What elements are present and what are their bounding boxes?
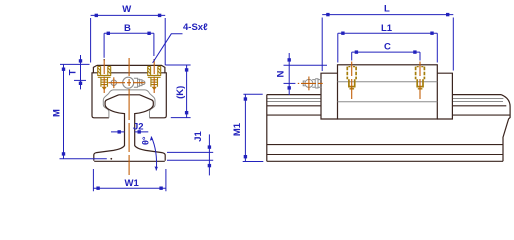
svg-text:T: T <box>68 69 79 75</box>
dimension B <box>104 32 154 58</box>
right screw S (hatched section) <box>147 66 161 90</box>
svg-text:J2: J2 <box>133 122 144 133</box>
svg-text:C: C <box>384 42 391 53</box>
rail side: top edge <box>267 94 501 96</box>
rail side: gray groove lines <box>267 98 504 100</box>
svg-text:L: L <box>384 4 390 15</box>
rail side: dark groove line <box>267 105 507 107</box>
dimension J2 <box>111 130 148 133</box>
left end cap <box>321 73 338 119</box>
dimension W <box>91 14 166 65</box>
dimension C <box>352 50 420 60</box>
dimension T <box>60 55 90 89</box>
grease nipple front (big circle) <box>123 77 134 88</box>
left screw S (hatched section) <box>97 66 111 90</box>
small hole circle <box>111 80 116 85</box>
grease nipple (side view, on left cap) <box>303 79 321 88</box>
centerline: right screw axis <box>153 60 155 94</box>
centerline: horizontal through nipple <box>108 82 144 84</box>
centerline: small hole vertical axis <box>113 77 115 88</box>
centerline: left screw axis <box>103 60 105 94</box>
svg-text:M1: M1 <box>232 122 243 136</box>
svg-text:θ°: θ° <box>141 136 151 145</box>
svg-text:4-Sxℓ: 4-Sxℓ <box>183 22 208 33</box>
dimension M1 <box>243 94 264 161</box>
block body (side view) <box>338 65 438 119</box>
svg-text:W: W <box>122 4 131 15</box>
left bolt centerline <box>351 62 353 100</box>
grease nipple side profile <box>134 78 142 87</box>
rail side: left end face <box>266 95 268 162</box>
nipple centerline horizontal <box>298 82 323 84</box>
dimension W1 <box>93 169 165 191</box>
nipple centerline vertical <box>308 77 310 91</box>
rail side: lower body lines <box>267 144 503 146</box>
rail side: shoulder line <box>267 114 510 116</box>
dimension J1 <box>167 134 213 175</box>
rail side: right end face with chamfers <box>501 95 510 162</box>
left mounting bolt (hidden) <box>347 67 356 89</box>
block gray internal lines <box>338 82 438 102</box>
right mounting bolt (hidden) <box>416 67 425 89</box>
dimension N <box>284 53 328 95</box>
block inner profile (gray clearance contour) <box>103 90 155 118</box>
block seam line <box>93 72 164 74</box>
right end cap <box>437 73 452 119</box>
datum dash-dot dot under foot <box>110 158 112 160</box>
svg-text:(K): (K) <box>175 86 186 99</box>
svg-text:M: M <box>52 109 63 117</box>
dimension (K) <box>165 65 190 118</box>
dimension L1 <box>338 32 438 63</box>
svg-text:L1: L1 <box>381 23 393 34</box>
centerline: main vertical axis <box>128 58 130 175</box>
svg-text:J1: J1 <box>193 131 204 142</box>
right bolt centerline <box>419 62 421 100</box>
svg-text:N: N <box>276 70 287 77</box>
svg-text:B: B <box>124 23 131 34</box>
rail cross-section outline <box>94 95 165 161</box>
dimension M <box>60 64 107 158</box>
screw centerline dark tips <box>103 59 105 61</box>
svg-text:W1: W1 <box>125 178 140 189</box>
block cross-section outline <box>92 65 166 117</box>
dimension L <box>322 13 453 71</box>
rail foot bottom / ground line <box>94 160 165 162</box>
